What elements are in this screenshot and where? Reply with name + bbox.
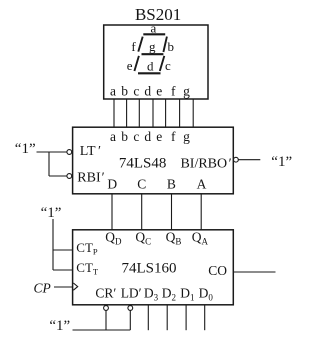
svg-text:b: b	[121, 84, 128, 99]
svg-text:b: b	[168, 39, 175, 54]
svg-text:D2: D2	[162, 286, 176, 303]
wire d	[152, 99, 154, 127]
svg-text:“1”: “1”	[271, 154, 292, 170]
wire c	[138, 99, 140, 127]
svg-text:CTP: CTP	[76, 240, 98, 257]
svg-text:“1”: “1”	[41, 205, 62, 221]
svg-text:LD′: LD′	[121, 286, 142, 301]
segment g (middle bar)	[142, 53, 164, 55]
segment e (lower-left slash)	[134, 56, 139, 71]
segment a (top bar)	[143, 33, 165, 35]
segment b (upper-right slash)	[163, 37, 167, 52]
svg-text:“1”: “1”	[15, 141, 36, 157]
svg-text:CO: CO	[208, 263, 227, 278]
wire f	[179, 99, 181, 127]
svg-text:d: d	[144, 129, 151, 144]
CO wire	[233, 271, 275, 273]
svg-text:f: f	[171, 129, 176, 144]
wire a (display to decoder)	[113, 99, 115, 127]
svg-text:RBI′: RBI′	[77, 170, 104, 185]
svg-text:CP: CP	[34, 280, 51, 295]
wire D (decoder to counter)	[111, 194, 113, 230]
wire D2 stub	[166, 305, 168, 330]
svg-text:e: e	[156, 129, 162, 144]
svg-text:g: g	[183, 129, 190, 144]
svg-text:C: C	[137, 177, 146, 192]
counter U3 74LS160 box	[73, 230, 234, 305]
svg-text:g: g	[149, 39, 156, 54]
svg-text:QD: QD	[105, 230, 122, 247]
svg-text:D1: D1	[180, 286, 194, 303]
segment d (bottom bar)	[138, 72, 161, 74]
CR' bubble	[104, 306, 109, 311]
svg-text:74LS48: 74LS48	[119, 155, 167, 171]
svg-text:B: B	[167, 177, 176, 192]
wire from BI/RBO' bubble	[238, 159, 260, 161]
svg-text:A: A	[197, 177, 207, 192]
LT' bubble	[67, 150, 72, 155]
svg-text:QC: QC	[135, 230, 151, 247]
svg-text:QA: QA	[192, 230, 209, 247]
wire LD' stub down	[129, 310, 131, 330]
wire A	[200, 194, 202, 230]
svg-text:a: a	[110, 84, 116, 99]
svg-text:f: f	[171, 84, 176, 99]
wire CP	[54, 286, 73, 288]
RBI' bubble	[67, 174, 72, 179]
segment c (lower-right slash)	[160, 56, 165, 71]
LD' bubble	[128, 306, 133, 311]
svg-text:e: e	[156, 84, 162, 99]
svg-text:CTT: CTT	[76, 260, 99, 277]
svg-text:b: b	[121, 129, 128, 144]
svg-text:CR′: CR′	[95, 286, 116, 301]
svg-text:g: g	[183, 84, 190, 99]
svg-text:d: d	[144, 84, 151, 99]
wire CR' stub down	[105, 310, 107, 330]
wire branch to CTP	[53, 249, 73, 251]
svg-text:a: a	[151, 20, 157, 35]
wire C	[141, 194, 143, 230]
wire D0 stub	[204, 305, 206, 330]
svg-text:BS201: BS201	[135, 5, 181, 24]
svg-text:“1”: “1”	[49, 318, 70, 334]
svg-text:c: c	[133, 84, 139, 99]
wire e	[165, 99, 167, 127]
svg-text:d: d	[147, 58, 154, 73]
wire g	[192, 99, 194, 127]
segment f (upper-left slash)	[138, 37, 142, 52]
wire B	[171, 194, 173, 230]
wire from "1" down	[52, 219, 54, 270]
svg-text:D3: D3	[144, 286, 159, 303]
svg-text:74LS160: 74LS160	[121, 261, 176, 277]
decoder U2 74LS48 box	[73, 127, 234, 194]
display U1 BS201 box	[104, 25, 208, 99]
wire to RBI' bubble	[49, 175, 67, 177]
svg-text:a: a	[110, 129, 116, 144]
wire D3 stub	[147, 305, 149, 330]
wire b	[126, 99, 128, 127]
bottom "1" tie wire	[73, 329, 131, 331]
svg-text:QB: QB	[166, 230, 182, 247]
svg-text:c: c	[165, 58, 171, 73]
BI/RBO' bubble	[234, 157, 239, 162]
wire branch to CTT	[53, 269, 73, 271]
wire D1 stub	[185, 305, 187, 330]
svg-text:BI/RBO′: BI/RBO′	[180, 157, 231, 172]
svg-text:c: c	[133, 129, 139, 144]
svg-text:D0: D0	[199, 286, 214, 303]
svg-text:LT′: LT′	[80, 144, 101, 159]
wire branch down to RBI'	[48, 152, 50, 176]
svg-text:e: e	[127, 58, 133, 73]
CP clock edge triangle	[73, 283, 77, 290]
wire from "1" to LT' bubble	[37, 151, 67, 153]
svg-text:D: D	[107, 177, 117, 192]
svg-text:f: f	[131, 39, 136, 54]
